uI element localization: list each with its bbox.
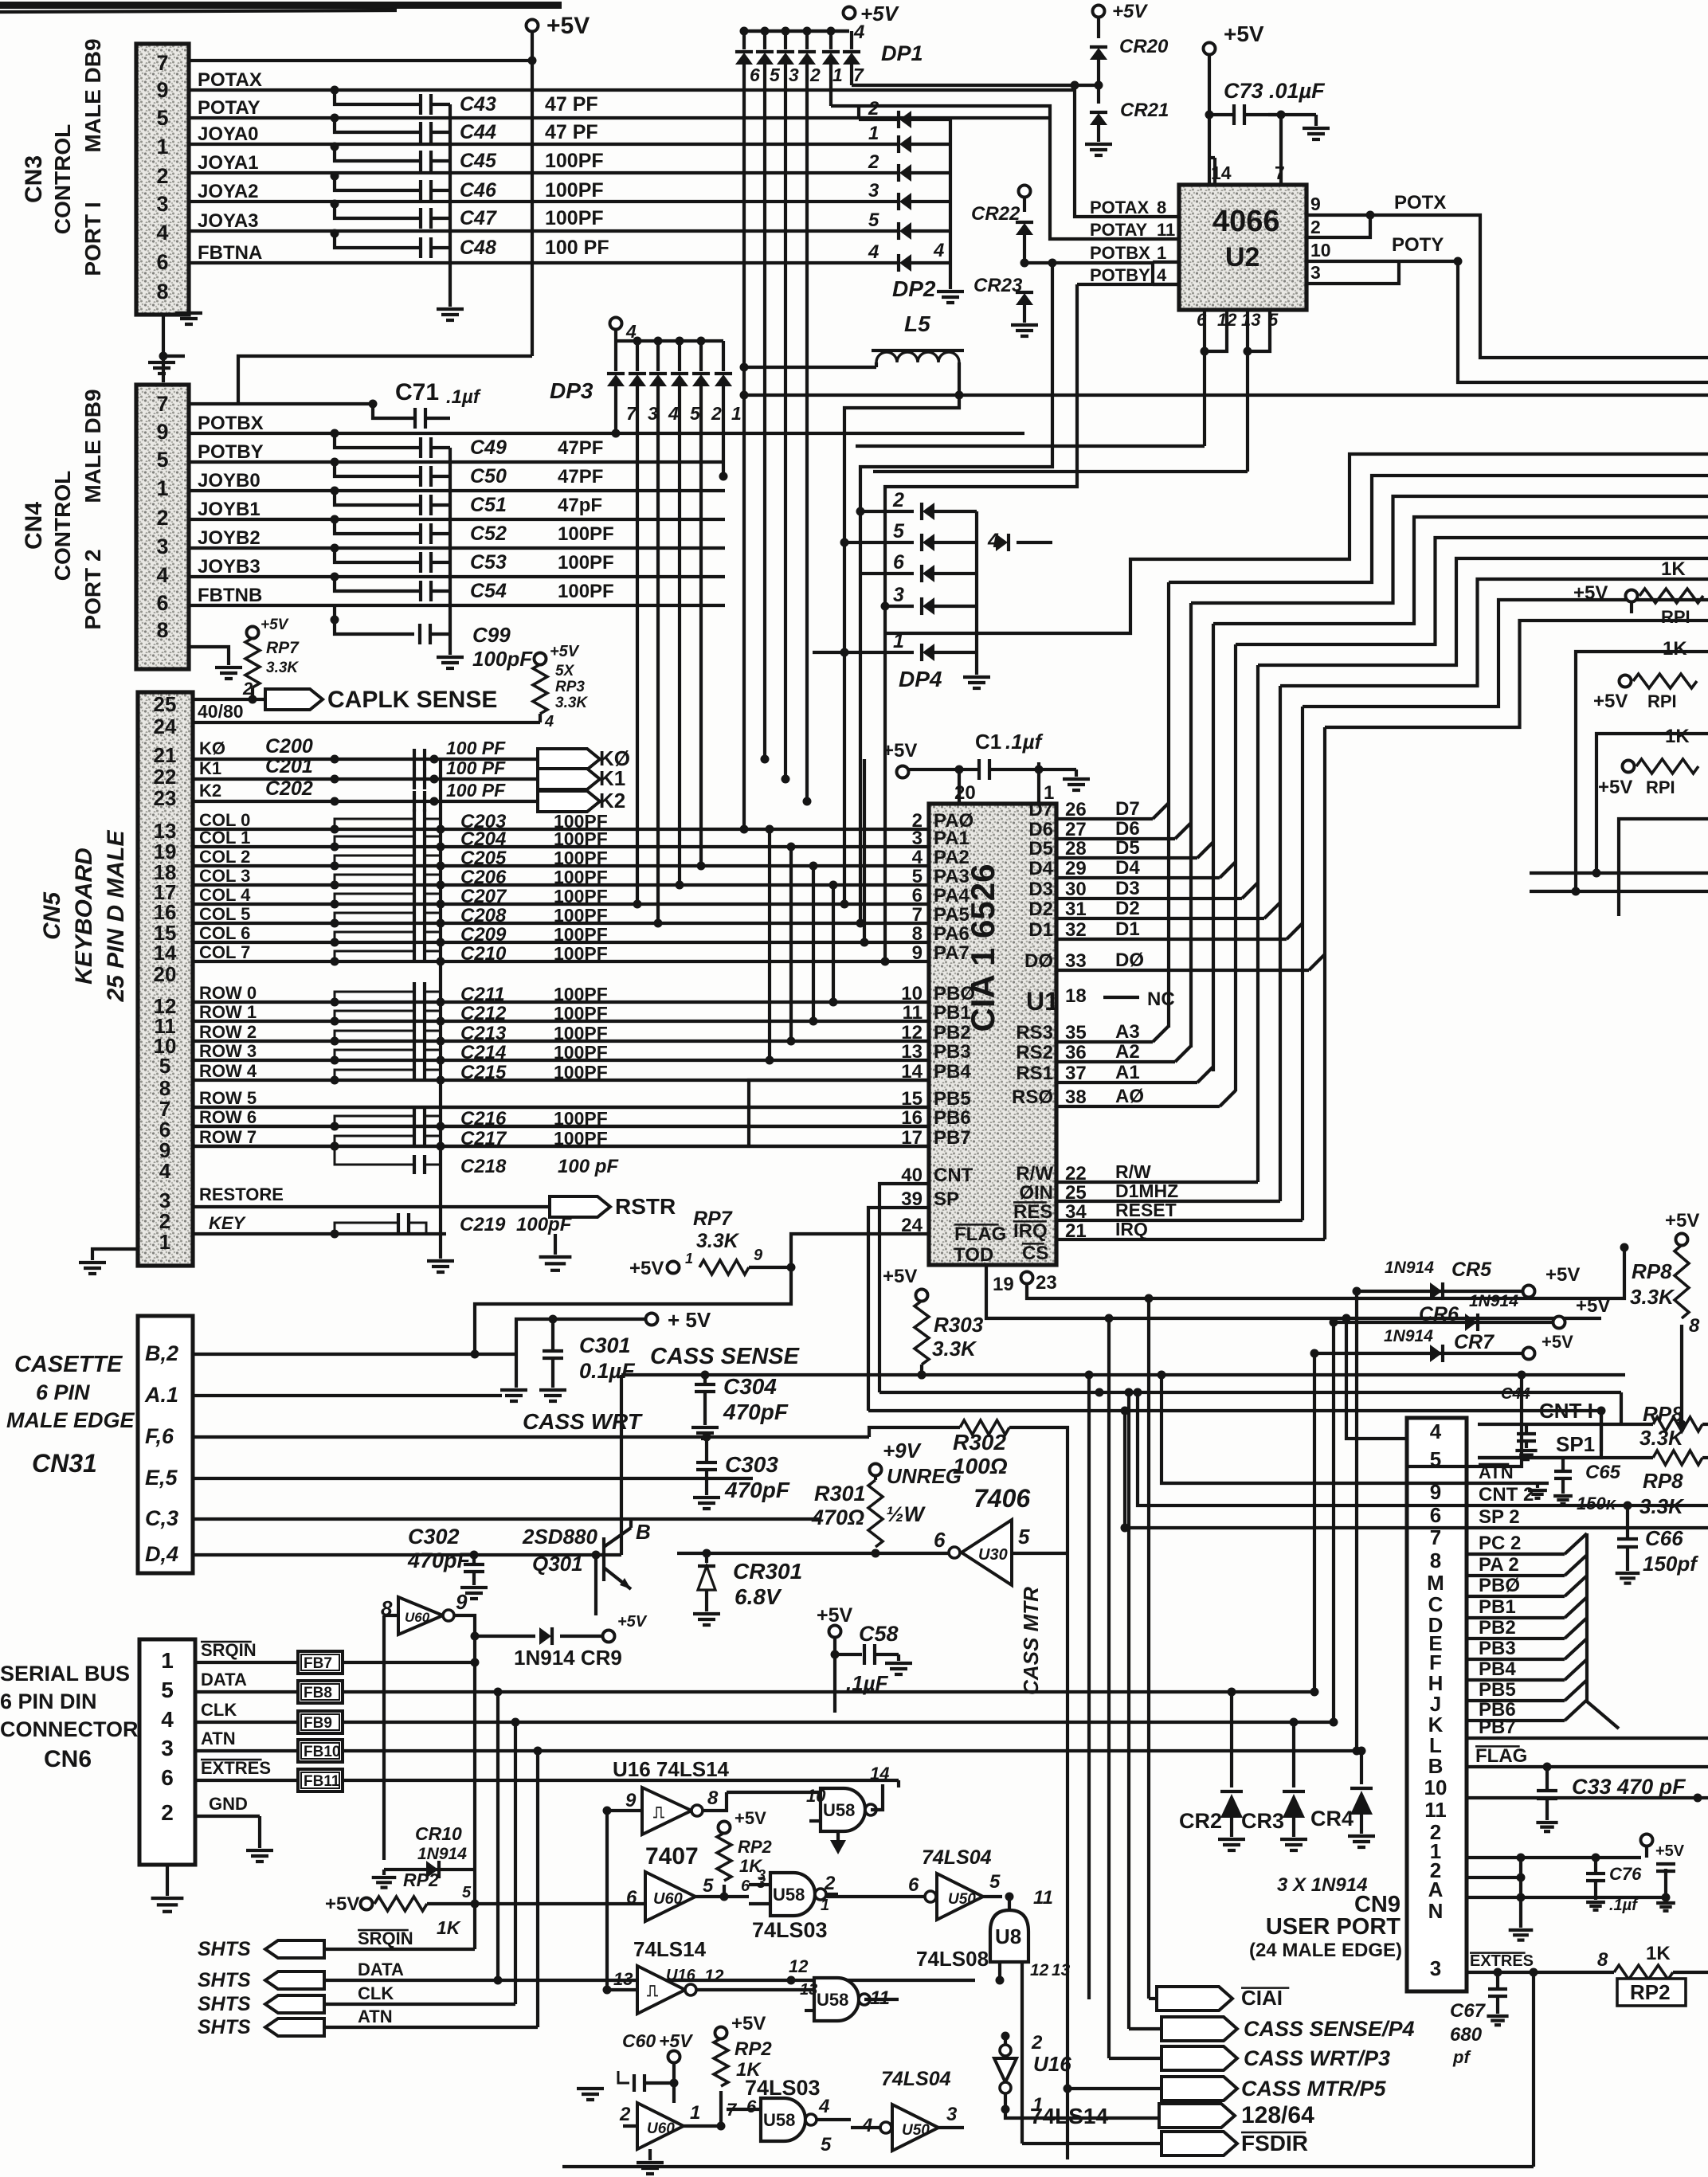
svg-text:PA5: PA5 — [934, 904, 970, 926]
svg-text:CN4: CN4 — [21, 502, 47, 550]
svg-text:100PF: 100PF — [545, 179, 604, 202]
svg-text:1: 1 — [156, 476, 168, 500]
svg-text:4: 4 — [933, 240, 944, 261]
svg-text:RES: RES — [1013, 1201, 1052, 1223]
svg-text:CN31: CN31 — [32, 1449, 97, 1478]
svg-text:23: 23 — [154, 786, 177, 810]
wire POTAY — [189, 116, 1050, 119]
svg-text:100PF: 100PF — [554, 1023, 608, 1043]
svg-text:5: 5 — [462, 1884, 472, 1901]
wire RP1 frame 3 — [1619, 819, 1708, 916]
svg-text:+5V: +5V — [731, 2013, 766, 2034]
wire U16 input vertical — [605, 1811, 609, 1990]
svg-text:+5V: +5V — [546, 13, 590, 39]
svg-text:C215: C215 — [460, 1062, 507, 1083]
svg-text:pf: pf — [1452, 2047, 1471, 2067]
svg-text:+5V: +5V — [883, 1266, 917, 1287]
svg-text:AØ: AØ — [1115, 1086, 1144, 1107]
svg-text:5: 5 — [161, 1678, 174, 1702]
svg-text:C44: C44 — [1501, 1385, 1530, 1403]
logic gate U58d 74LS03 (bottom) — [761, 2098, 805, 2141]
svg-text:PORT 2: PORT 2 — [80, 549, 105, 629]
svg-text:A.1: A.1 — [144, 1383, 178, 1407]
svg-text:4: 4 — [868, 241, 879, 263]
svg-text:.1µf: .1µf — [446, 386, 481, 408]
svg-text:U16 74LS14: U16 74LS14 — [613, 1757, 730, 1781]
svg-text:RS2: RS2 — [1016, 1042, 1053, 1063]
svg-text:+5V: +5V — [659, 2030, 693, 2051]
svg-text:POTBY: POTBY — [198, 441, 264, 463]
svg-text:C,3: C,3 — [145, 1506, 178, 1530]
svg-text:11: 11 — [1033, 1887, 1053, 1909]
svg-text:A: A — [1428, 1877, 1444, 1901]
svg-text:C73 .01µF: C73 .01µF — [1224, 79, 1326, 103]
svg-text:ROW 5: ROW 5 — [199, 1088, 257, 1108]
wire RP7 to C301 +5V link — [475, 1267, 791, 1354]
svg-text:C205: C205 — [460, 848, 507, 869]
svg-text:A3: A3 — [1115, 1021, 1140, 1043]
wire E,5 row — [193, 1477, 753, 1480]
wire CN3 pin7 to +5V — [189, 59, 532, 62]
svg-text:C46: C46 — [460, 179, 497, 202]
svg-text:3.3K: 3.3K — [1630, 1285, 1675, 1309]
svg-text:CR3: CR3 — [1241, 1809, 1284, 1833]
svg-text:3.3K: 3.3K — [932, 1337, 977, 1361]
svg-text:11: 11 — [1157, 220, 1175, 240]
svg-text:100PF: 100PF — [545, 150, 604, 172]
svg-text:FBTNB: FBTNB — [198, 585, 262, 606]
svg-text:USER PORT: USER PORT — [1266, 1914, 1400, 1940]
svg-text:DATA: DATA — [201, 1670, 247, 1690]
svg-text:PA1: PA1 — [934, 828, 970, 849]
wire JOYA1 — [189, 171, 899, 174]
svg-text:100PF: 100PF — [545, 207, 604, 229]
svg-text:RS3: RS3 — [1016, 1022, 1053, 1043]
wire CNT line to user port — [879, 1391, 1621, 1394]
svg-text:K1: K1 — [199, 758, 221, 778]
diode CR2 — [1230, 1692, 1233, 1787]
svg-text:4: 4 — [861, 2115, 872, 2136]
svg-text:2: 2 — [868, 151, 879, 173]
svg-text:PB1: PB1 — [934, 1002, 971, 1024]
ground CN4 pin8 — [189, 647, 229, 665]
svg-text:FB8: FB8 — [304, 1685, 332, 1701]
svg-text:1K: 1K — [1665, 726, 1690, 747]
diode CR3 — [1292, 1722, 1295, 1787]
svg-text:1N914: 1N914 — [1469, 1292, 1518, 1310]
capacitor C218 100pF — [331, 1142, 339, 1151]
svg-text:47pF: 47pF — [558, 495, 602, 516]
svg-text:CR4: CR4 — [1310, 1807, 1353, 1830]
svg-text:12: 12 — [1030, 1961, 1049, 1979]
svg-text:20: 20 — [154, 962, 177, 986]
svg-text:C52: C52 — [470, 523, 507, 545]
svg-text:JOYB1: JOYB1 — [198, 499, 261, 520]
svg-text:C44: C44 — [460, 121, 496, 143]
svg-text:JOYB0: JOYB0 — [198, 470, 261, 491]
svg-text:COL 6: COL 6 — [199, 923, 250, 943]
svg-text:CNT 2: CNT 2 — [1479, 1484, 1534, 1505]
wire POTBX route down — [860, 263, 1052, 741]
svg-text:12: 12 — [901, 1022, 923, 1043]
wire CNT route — [879, 1184, 929, 1392]
svg-text:ROW 0: ROW 0 — [199, 983, 257, 1003]
wire CIA pin23 CS — [1021, 1272, 1033, 1284]
svg-text:U30: U30 — [978, 1546, 1008, 1564]
svg-text:2: 2 — [161, 1800, 174, 1825]
svg-text:6: 6 — [161, 1765, 174, 1790]
svg-text:U8: U8 — [995, 1924, 1021, 1948]
op-amp U60 7407 (lower) — [637, 2103, 684, 2149]
svg-text:100 PF: 100 PF — [446, 738, 506, 758]
svg-text:13: 13 — [901, 1041, 923, 1063]
svg-text:9: 9 — [156, 78, 168, 102]
svg-text:8: 8 — [1430, 1549, 1441, 1572]
svg-text:KØ: KØ — [199, 738, 225, 758]
svg-text:PB6: PB6 — [934, 1107, 971, 1129]
logic gate U8 74LS08 AND — [990, 1910, 1028, 1962]
svg-text:C33 470 pF: C33 470 pF — [1572, 1775, 1686, 1799]
svg-text:N: N — [1428, 1899, 1444, 1923]
svg-text:U1: U1 — [1026, 987, 1059, 1016]
svg-text:L5: L5 — [904, 311, 930, 336]
svg-text:C201: C201 — [265, 755, 313, 777]
svg-text:C206: C206 — [460, 867, 507, 888]
ground CR21 — [1085, 143, 1112, 146]
svg-text:C304: C304 — [723, 1374, 777, 1399]
svg-text:SHTS: SHTS — [198, 2016, 251, 2038]
node CASS WRT/P3 flag — [1162, 2046, 1237, 2070]
svg-text:U60: U60 — [405, 1610, 430, 1625]
resistor RP2 1K (gates top) — [719, 1822, 731, 1834]
resistor RP3 3.3K — [535, 653, 546, 665]
wire D,4 to U60 — [594, 1555, 597, 1615]
svg-text:C67: C67 — [1450, 2000, 1487, 2022]
capacitor C48 — [331, 229, 339, 238]
svg-text:+9V: +9V — [883, 1439, 923, 1462]
svg-text:+5V: +5V — [860, 2, 900, 25]
svg-text:C51: C51 — [470, 494, 507, 516]
capacitor C67 680pf — [1494, 1968, 1502, 1977]
wire CN9 pin 5 feed — [1407, 1375, 1522, 1466]
svg-text:2: 2 — [711, 403, 722, 424]
svg-text:6: 6 — [934, 1528, 946, 1552]
svg-text:RPI: RPI — [1646, 777, 1675, 797]
svg-text:100PF: 100PF — [558, 523, 614, 545]
svg-text:PB4: PB4 — [1479, 1658, 1516, 1680]
svg-text:POTY: POTY — [1392, 234, 1444, 256]
svg-text:4: 4 — [156, 563, 168, 587]
svg-text:POTAX: POTAX — [1090, 198, 1149, 217]
svg-text:CLK: CLK — [358, 1983, 394, 2003]
wire PB4 route — [749, 1080, 929, 1146]
diode CR22 — [1019, 186, 1031, 198]
wire CN3-CN4 link — [162, 315, 165, 382]
svg-text:DP2: DP2 — [892, 276, 936, 301]
svg-text:2: 2 — [824, 1873, 836, 1894]
svg-text:RP7: RP7 — [266, 639, 300, 657]
wire L5 right — [844, 362, 959, 721]
wire CASS MTR line — [677, 1552, 949, 1555]
svg-text:6: 6 — [912, 885, 923, 906]
svg-text:C76: C76 — [1609, 1864, 1642, 1884]
svg-text:C204: C204 — [460, 828, 506, 850]
svg-text:12: 12 — [789, 1956, 809, 1976]
ground CN3 shell — [187, 299, 190, 311]
svg-text:SRQIN: SRQIN — [358, 1928, 413, 1948]
svg-text:7: 7 — [853, 65, 864, 85]
wire CIA pin19 — [985, 1265, 988, 1287]
svg-text:C47: C47 — [460, 207, 497, 229]
svg-text:5X: 5X — [555, 663, 575, 679]
svg-text:RP2: RP2 — [738, 1837, 773, 1857]
svg-text:E,5: E,5 — [145, 1466, 178, 1490]
svg-text:7: 7 — [156, 51, 168, 75]
svg-text:ATN: ATN — [201, 1729, 236, 1748]
diode CR21 — [1090, 113, 1107, 125]
svg-text:SP: SP — [934, 1188, 959, 1210]
svg-text:2: 2 — [809, 65, 821, 85]
svg-text:CASS MTR/P5: CASS MTR/P5 — [1241, 2077, 1387, 2101]
svg-text:4: 4 — [156, 221, 168, 245]
wire SP route — [868, 1208, 929, 1411]
svg-text:C218: C218 — [460, 1156, 507, 1177]
svg-text:C213: C213 — [460, 1023, 507, 1044]
svg-text:3: 3 — [912, 828, 923, 849]
svg-text:POTAY: POTAY — [198, 97, 261, 119]
svg-text:3: 3 — [1310, 262, 1321, 283]
svg-text:+5V: +5V — [1224, 22, 1264, 46]
svg-text:K2: K2 — [199, 781, 221, 801]
svg-text:18: 18 — [1065, 985, 1087, 1007]
svg-text:C209: C209 — [460, 924, 507, 946]
svg-text:6 PIN DIN: 6 PIN DIN — [0, 1690, 97, 1713]
svg-text:74LS14: 74LS14 — [1030, 2104, 1108, 2128]
wire PA7 vertical — [884, 961, 887, 965]
wire CN9 pin 4 feed — [1346, 1318, 1407, 1439]
svg-text:POTBX: POTBX — [198, 413, 264, 434]
svg-text:CN3: CN3 — [21, 155, 47, 203]
wire DP1-1 to POTAY — [831, 106, 1153, 239]
ground CN5 cap rail — [439, 759, 442, 1259]
svg-text:CR22: CR22 — [971, 203, 1020, 225]
svg-text:DP3: DP3 — [550, 378, 593, 403]
svg-text:SRQIN: SRQIN — [201, 1640, 257, 1660]
wire D,4 row — [193, 1553, 621, 1556]
svg-text:+5V: +5V — [1576, 1295, 1610, 1317]
svg-text:U16: U16 — [666, 1967, 696, 1984]
svg-text:8: 8 — [707, 1787, 719, 1809]
diode pack DP3 — [610, 318, 622, 330]
svg-text:RP7: RP7 — [693, 1208, 733, 1230]
svg-text:IRQ: IRQ — [1115, 1219, 1148, 1239]
capacitor C43 — [331, 86, 339, 95]
svg-text:FB11: FB11 — [304, 1773, 340, 1790]
svg-text:ROW 3: ROW 3 — [199, 1041, 257, 1061]
svg-text:47 PF: 47 PF — [545, 121, 598, 143]
svg-text:FSDIR: FSDIR — [1241, 2131, 1308, 2155]
svg-text:SHTS: SHTS — [198, 1938, 251, 1960]
capacitor C54 — [331, 573, 339, 581]
svg-text:COL 2: COL 2 — [199, 847, 250, 867]
svg-text:8: 8 — [1689, 1315, 1700, 1337]
svg-text:GND: GND — [209, 1794, 248, 1814]
svg-text:1: 1 — [868, 123, 879, 144]
svg-text:CAPLK SENSE: CAPLK SENSE — [327, 687, 497, 713]
svg-text:D7: D7 — [1115, 798, 1140, 820]
svg-text:ROW 7: ROW 7 — [199, 1127, 257, 1147]
svg-text:100PF: 100PF — [554, 905, 608, 926]
svg-text:470pF: 470pF — [723, 1400, 789, 1424]
svg-text:U58: U58 — [763, 2110, 795, 2130]
svg-text:TOD: TOD — [954, 1244, 993, 1266]
svg-text:POTAY: POTAY — [1090, 220, 1147, 240]
node CASS MTR/P5 flag — [1162, 2077, 1237, 2101]
svg-text:POTAX: POTAX — [198, 69, 262, 91]
svg-text:1K: 1K — [1661, 558, 1686, 580]
wire 40/80 row — [193, 721, 540, 724]
svg-text:ATN: ATN — [358, 2007, 393, 2026]
svg-text:14: 14 — [154, 941, 177, 965]
svg-text:D2: D2 — [1028, 899, 1053, 920]
svg-text:U2: U2 — [1225, 242, 1259, 272]
svg-text:D7: D7 — [1028, 799, 1053, 820]
svg-text:9: 9 — [456, 1590, 468, 1614]
svg-text:JOYB3: JOYB3 — [198, 556, 261, 578]
svg-text:100 PF: 100 PF — [545, 237, 609, 259]
svg-text:6: 6 — [908, 1874, 919, 1896]
wire frame horizontals left ext — [1530, 871, 1596, 875]
svg-text:C66: C66 — [1645, 1526, 1683, 1550]
capacitor C51 — [331, 487, 339, 495]
svg-text:1: 1 — [159, 1230, 170, 1254]
svg-text:2: 2 — [892, 489, 904, 511]
svg-text:JOYA3: JOYA3 — [198, 210, 259, 232]
svg-text:3: 3 — [161, 1736, 174, 1760]
svg-text:NC: NC — [1147, 989, 1175, 1010]
svg-text:ROW 2: ROW 2 — [199, 1022, 257, 1042]
svg-text:+5V: +5V — [1545, 1264, 1580, 1286]
svg-text:POTBY: POTBY — [1090, 265, 1150, 285]
svg-text:D1MHZ: D1MHZ — [1115, 1181, 1178, 1201]
svg-text:U58: U58 — [823, 1800, 855, 1820]
svg-text:+5V: +5V — [1655, 1842, 1685, 1860]
ground DP4 — [963, 675, 990, 679]
svg-text:C208: C208 — [460, 905, 507, 926]
svg-text:POTBX: POTBX — [1090, 243, 1150, 263]
svg-text:CIAI: CIAI — [1241, 1986, 1283, 2010]
svg-text:.1µf: .1µf — [1609, 1897, 1639, 1914]
wire FB11 EXTRES row — [343, 1779, 899, 1782]
svg-text:D4: D4 — [1115, 857, 1140, 879]
svg-text:+5V: +5V — [261, 617, 289, 633]
node CAPLK SENSE — [193, 698, 265, 701]
svg-text:4: 4 — [544, 713, 554, 730]
svg-text:11: 11 — [1424, 1798, 1447, 1822]
svg-text:IRQ: IRQ — [1013, 1220, 1048, 1242]
svg-text:PA 2: PA 2 — [1479, 1554, 1519, 1576]
svg-text:8: 8 — [156, 280, 168, 303]
svg-text:8: 8 — [1157, 198, 1166, 217]
svg-text:100 PF: 100 PF — [446, 780, 506, 801]
capacitor C50 — [331, 458, 339, 467]
svg-text:PA2: PA2 — [934, 847, 970, 868]
svg-text:3: 3 — [758, 1867, 766, 1883]
svg-text:74LS14: 74LS14 — [633, 1937, 707, 1961]
svg-text:2: 2 — [619, 2104, 631, 2125]
svg-text:RP8: RP8 — [1632, 1259, 1672, 1283]
capacitor C302 470pF — [472, 1555, 476, 1564]
svg-text:CASS WRT/P3: CASS WRT/P3 — [1244, 2046, 1390, 2070]
svg-text:SERIAL BUS: SERIAL BUS — [0, 1662, 130, 1686]
svg-text:UNREG: UNREG — [887, 1464, 962, 1488]
svg-text:5: 5 — [868, 209, 879, 231]
svg-text:470pF: 470pF — [407, 1549, 472, 1572]
svg-text:Q301: Q301 — [532, 1552, 583, 1576]
svg-text:+5V: +5V — [1542, 1332, 1573, 1352]
svg-text:U58: U58 — [817, 1990, 848, 2010]
wire JOYA2 — [189, 200, 899, 203]
svg-text:9: 9 — [156, 420, 168, 444]
svg-text:A1: A1 — [1115, 1062, 1140, 1083]
ground C1 — [1075, 769, 1078, 777]
svg-text:C53: C53 — [470, 551, 507, 574]
svg-text:4: 4 — [161, 1707, 174, 1732]
svg-text:74LS04: 74LS04 — [922, 1846, 992, 1869]
svg-text:+ 5V: + 5V — [668, 1308, 711, 1332]
svg-text:10: 10 — [901, 983, 923, 1004]
svg-text:FBTNA: FBTNA — [198, 242, 262, 264]
capacitor C304 470pF — [703, 1375, 707, 1384]
svg-text:2: 2 — [1031, 2032, 1043, 2054]
svg-text:C99: C99 — [472, 623, 511, 647]
wire ATN feed — [1162, 1375, 1467, 1483]
svg-text:100PF: 100PF — [558, 552, 614, 574]
svg-text:B,2: B,2 — [145, 1341, 178, 1365]
svg-text:7407: 7407 — [645, 1843, 699, 1870]
resistor RP1 1K (bot) — [1623, 761, 1635, 773]
svg-text:4: 4 — [1430, 1419, 1442, 1443]
svg-text:D2: D2 — [1115, 898, 1140, 919]
svg-text:K1: K1 — [599, 766, 625, 790]
svg-text:6.8V: 6.8V — [735, 1584, 782, 1609]
resistor R301 470ohm 1/2W — [874, 1475, 877, 1480]
svg-text:100PF: 100PF — [554, 867, 608, 887]
svg-text:ROW 4: ROW 4 — [199, 1061, 257, 1081]
svg-text:100pF: 100pF — [472, 647, 533, 671]
svg-text:EXTRES: EXTRES — [201, 1758, 271, 1778]
svg-text:6: 6 — [746, 2097, 757, 2116]
capacitor C76 .1uf — [1594, 1858, 1597, 1874]
connector CN9 USER PORT 24 MALE EDGE — [1407, 1418, 1467, 1991]
svg-text:U50: U50 — [902, 2122, 930, 2139]
svg-text:5: 5 — [912, 866, 923, 887]
svg-text:128/64: 128/64 — [1241, 2102, 1314, 2128]
wire long rail y496 — [744, 394, 1708, 397]
svg-text:PB4: PB4 — [934, 1061, 971, 1083]
svg-text:SP1: SP1 — [1556, 1432, 1595, 1456]
svg-text:100PF: 100PF — [554, 1003, 608, 1024]
svg-text:100PF: 100PF — [554, 943, 608, 964]
svg-text:6: 6 — [893, 551, 905, 574]
wire CASS MTR vertical — [1066, 1553, 1069, 2159]
svg-text:+5V: +5V — [817, 1604, 853, 1627]
svg-text:C207: C207 — [460, 886, 507, 907]
connector CN4 CONTROL PORT 2 MALE DB9 — [136, 385, 189, 669]
ground CN5 extra — [554, 1234, 557, 1255]
svg-text:JOYA1: JOYA1 — [198, 152, 259, 174]
diode CR9 1N914 — [475, 1635, 535, 1638]
